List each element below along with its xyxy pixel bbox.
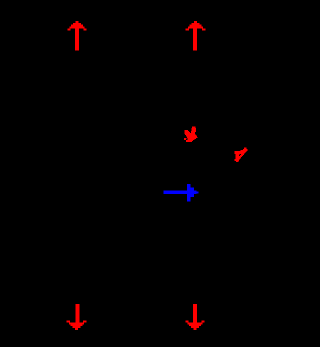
relaxation zig-zag arrow W2 (upper) — [184, 127, 198, 142]
spin-down arrow, lower-left level — [67, 304, 87, 330]
relaxation zig-zag arrow W0 (lower) — [235, 148, 248, 163]
spin-up arrow, upper-right level — [186, 21, 206, 51]
spin-down arrow, lower-right level — [186, 304, 205, 330]
spin-up arrow, upper-left level — [68, 21, 87, 51]
blue transition arrow (driven transition) — [163, 184, 198, 202]
